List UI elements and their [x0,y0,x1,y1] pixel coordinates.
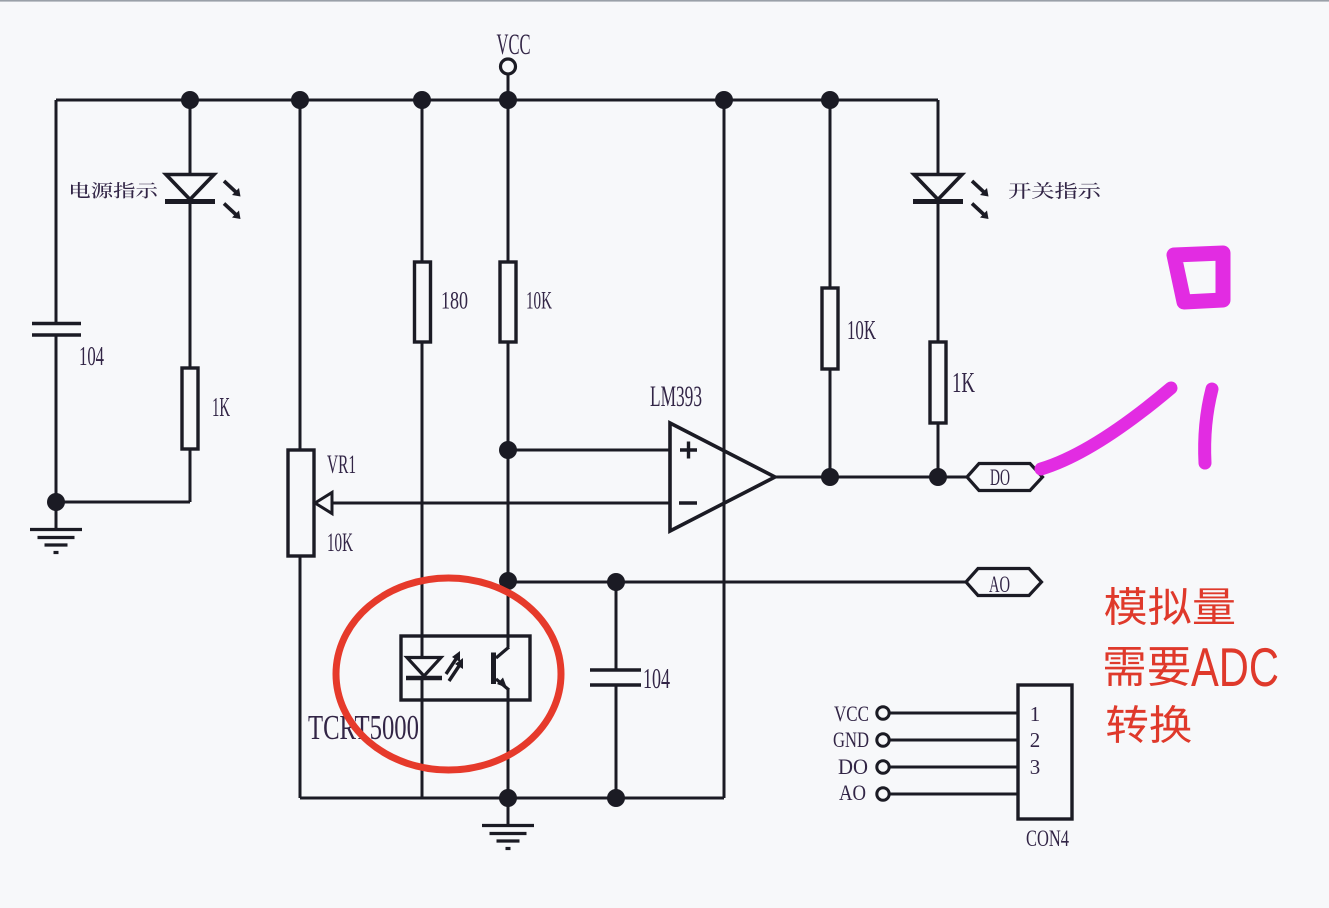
svg-text:AO: AO [839,780,866,805]
svg-text:VR1: VR1 [327,450,356,479]
svg-text:AO: AO [989,572,1010,597]
svg-text:2: 2 [1030,728,1041,752]
svg-text:ADC: ADC [1191,636,1279,698]
svg-text:DO: DO [990,465,1010,490]
svg-text:VCC: VCC [497,28,531,61]
svg-text:1K: 1K [952,368,975,399]
svg-text:1: 1 [1030,702,1041,726]
svg-text:GND: GND [833,727,869,752]
svg-text:10K: 10K [847,315,876,345]
svg-text:LM393: LM393 [650,380,702,413]
svg-text:104: 104 [643,664,670,695]
svg-text:CON4: CON4 [1026,826,1069,851]
svg-text:DO: DO [838,754,868,779]
svg-text:180: 180 [441,288,468,315]
svg-text:10K: 10K [526,288,552,315]
svg-text:VCC: VCC [834,701,869,726]
svg-text:10K: 10K [327,528,353,557]
svg-text:104: 104 [79,341,104,371]
svg-text:3: 3 [1030,755,1041,779]
svg-text:1K: 1K [212,392,230,422]
